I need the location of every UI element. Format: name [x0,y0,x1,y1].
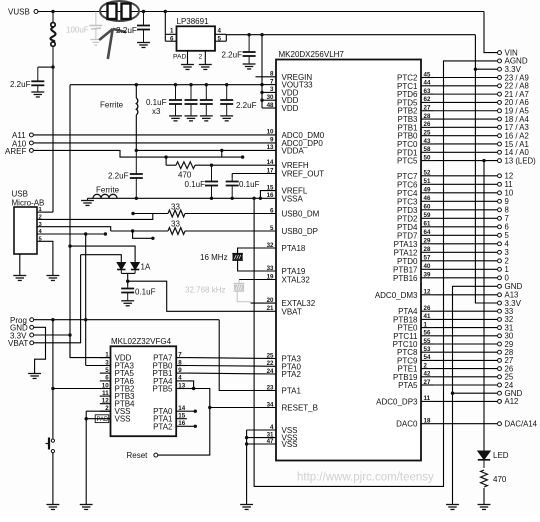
svg-text:100uF: 100uF [66,26,89,35]
svg-text:Reset: Reset [127,451,149,460]
svg-text:3.3V: 3.3V [505,65,522,74]
svg-text:VSS: VSS [282,440,298,449]
resistor 33 (D-) [168,210,185,217]
wire VUSB down to USB connector [52,64,54,212]
svg-text:4: 4 [218,28,222,35]
svg-text:22: 22 [267,360,274,367]
node pad 9 [498,199,502,203]
svg-text:PTC5: PTC5 [397,157,418,166]
wire to pad 9 [434,200,498,202]
wire to pad 3 [434,251,498,253]
ground (LED) [478,505,491,510]
svg-text:USB0_DM: USB0_DM [282,210,320,219]
wire to pad 17 / A3 [434,126,498,128]
node AGND pad [498,59,502,63]
node pad 29 [498,342,502,346]
wire to pad 21 / A7 [434,93,498,95]
node pad 33 [498,309,502,313]
fuse F1 (annotation squiggle) [50,13,55,64]
node pad 8 [498,208,502,212]
svg-text:PAD: PAD [97,417,110,423]
svg-text:13: 13 [267,144,274,151]
node pad 4 [498,242,502,246]
resistor 33 (D+) [168,228,185,235]
svg-text:34: 34 [267,401,274,408]
junction VUSB/fuse [51,10,54,13]
wire to pad 8 [434,209,498,211]
wire to pad 29 [434,343,498,345]
node GND pad (top) [498,284,502,288]
wire to pad 32 [434,318,498,320]
svg-text:10: 10 [267,129,274,136]
wire VREFL bracket to AGND [260,191,276,199]
wire MK20 VSS bracket to ground [246,430,248,505]
svg-text:VSS: VSS [115,415,131,424]
wire to pad 25 [434,376,498,378]
junction GND row 2 [451,392,454,395]
wire 3.3V output rail [226,34,475,36]
svg-text:470: 470 [493,475,507,484]
pin PAD MKL02 VSS [100,418,111,420]
junction Prog/ID riser [84,318,87,321]
wire VBAT pad to diode anode [34,255,81,343]
wire LED resistor to ground [483,488,485,505]
wire AGND rail [254,61,497,487]
wire GND pad to ground [34,327,46,373]
svg-text:USB: USB [12,190,28,199]
wire to pad 6 [434,226,498,228]
svg-text:LP38691: LP38691 [177,17,210,26]
node pad 1 [498,267,502,271]
ground (GND pad) [28,374,41,379]
svg-text:2.2uF: 2.2uF [108,172,129,181]
svg-text:1: 1 [170,28,174,35]
svg-text:16 MHz: 16 MHz [200,253,228,262]
capacitor 0.1uF (VREFH) [210,164,213,167]
wire 3.3V riser to pads and MKL02 [69,85,71,358]
wire button to ground [52,453,54,505]
svg-text:5: 5 [270,225,274,232]
wire to pad 20 / A6 [434,101,498,103]
node 3.3V pad (mid) [498,301,502,305]
svg-text:PAD: PAD [173,54,187,61]
node pad 22 / A8 [498,84,502,88]
node pad 12 [498,174,502,178]
svg-text:Ferrite: Ferrite [96,186,120,195]
svg-text:PTA18: PTA18 [282,244,306,253]
wire AGND row (VSSA) [93,197,276,199]
svg-text:VREF_OUT: VREF_OUT [282,170,325,179]
junction AREF end [241,155,244,158]
ground (GND rail) [446,505,459,510]
capacitor chip symbol right (in ellipse) [122,4,131,20]
wire 3.3V distribution rail [70,84,262,86]
junction Prog/button column [51,318,54,321]
ground (button) [46,505,59,510]
svg-text:MK20DX256VLH7: MK20DX256VLH7 [279,50,345,59]
wire SWD PTA7 to MK20 PTA3 [187,357,276,360]
wire to pad 23 / A9 [434,77,498,79]
bypass capacitor 0.1uF #1 [174,83,177,86]
node pad 7 [498,216,502,220]
svg-text:VSSA: VSSA [282,194,304,203]
wire SWD PTB1 to MK20 PTA2 [187,372,276,375]
wire 3.3V feed to VDD pins [260,33,263,36]
bypass capacitor 0.1uF #3 [205,83,208,86]
node pad 11 [498,182,502,186]
node pad 27 [498,358,502,362]
svg-text:17: 17 [267,167,274,174]
wire to pad 24 [434,384,498,386]
svg-text:0.1uF: 0.1uF [135,288,156,297]
svg-text:USB0_DP: USB0_DP [282,227,318,236]
node pad 17 / A3 [498,125,502,129]
node pad A12 [498,399,502,403]
svg-text:LED: LED [493,451,509,460]
wire pin 13 to LED column [482,159,485,162]
node pad 18 / A4 [498,117,502,121]
node pad 2 [498,259,502,263]
wire 3.3V pad to riser [34,334,70,336]
svg-text:VBAT: VBAT [8,339,28,348]
node 3.3V pad (top) [498,67,502,71]
svg-text:24: 24 [267,368,274,375]
wire to pad 11 [434,183,498,185]
svg-text:PTA5: PTA5 [398,381,418,390]
svg-text:2.2uF: 2.2uF [116,26,137,35]
svg-text:0.1uF: 0.1uF [239,180,260,189]
wire Prog to PTB2 and button [52,320,54,439]
node pad 0 [498,276,502,280]
wire riser to MKL02 VDD [70,335,111,358]
wire USB0_DP row [111,230,168,232]
svg-text:32.768 kHz: 32.768 kHz [185,286,225,295]
svg-text:VBAT: VBAT [282,307,302,316]
node pad 20 / A6 [498,100,502,104]
node pad 5 [498,233,502,237]
svg-text:1A: 1A [141,263,151,272]
svg-text:2.2uF: 2.2uF [236,101,257,110]
wire PTA4/PTB5 reset bracket [187,381,194,389]
wire diode common cathode [121,272,135,274]
svg-text:19: 19 [267,273,274,280]
wire Prog to MK20 PTA1 [219,320,276,391]
wire VUSB horizontal rail [38,11,484,13]
wire diode output to VBAT pin [128,281,276,311]
node pad 24 [498,383,502,387]
svg-text:16: 16 [267,192,274,199]
wire 3.3V to diode (right) [68,244,71,247]
wire to pad 1 [434,268,498,270]
stub MKL02 PTA0 with via [187,410,195,412]
wire to pad 13 (LED) [434,160,498,162]
svg-text:PTA2: PTA2 [153,422,173,431]
svg-text:470: 470 [178,170,192,179]
svg-text:DAC0: DAC0 [396,420,418,429]
wire GND rail [453,286,498,504]
node pad 30 [498,334,502,338]
node pad 16 / A2 [498,134,502,138]
wire to pad 27 [434,359,498,361]
wire PTB2 row to MKL02 [53,388,111,390]
svg-text:3.3V: 3.3V [505,299,522,308]
wire LP38691 output bracket [225,34,227,41]
junction VDD rows [260,83,263,86]
svg-text:PTA1: PTA1 [282,387,302,396]
diode D2 1A (right) [131,262,139,274]
svg-text:2.2uF: 2.2uF [222,51,243,60]
capacitor 2.2uF (after ellipse) [142,10,145,13]
node pad 25 [498,375,502,379]
svg-text:http://www.pjrc.com/teensy: http://www.pjrc.com/teensy [297,472,434,484]
svg-text:ADC0_DM3: ADC0_DM3 [375,291,418,300]
svg-text:33: 33 [267,265,274,272]
svg-text:PTB16: PTB16 [393,274,418,283]
wire to pad 4 [434,243,498,245]
wire XTAL32 row [239,279,276,281]
junction PTB2 row [51,387,54,390]
wire Prog row [34,319,219,321]
wire 3.3V terminal [475,68,497,70]
wire to pad 22 / A8 [434,85,498,87]
node GND pad (bottom) [498,391,502,395]
resistor 470 (LED) [481,470,488,487]
wire to pad A13 [434,294,498,296]
svg-text:2.2uF: 2.2uF [10,80,31,89]
wire to pad DAC/A14 [434,423,498,425]
svg-text:RESET_B: RESET_B [282,404,318,413]
wire 3.3V rail right [475,35,497,303]
junction VUSB branch to 2.2uF [51,65,54,68]
node pad 13 (LED) [498,159,502,163]
wire EXTAL32 row [251,302,276,304]
node pad 19 / A5 [498,109,502,113]
svg-text:DAC/A14: DAC/A14 [505,420,538,429]
wire USB0_DM row [131,212,134,215]
wire to pad 5 [434,234,498,236]
node VIN pad [498,51,502,55]
node pad A13 [498,293,502,297]
node pad 21 / A7 [498,92,502,96]
wire A10 to ADC0_DP0 [34,142,276,144]
junction 3.3V terminal row [474,68,477,71]
annotation ellipse around replacement capacitors [100,1,139,21]
wire MKL02 VSS pins to ground [86,410,110,412]
svg-text:AREF: AREF [5,147,26,156]
wire to pad 15 / A1 [434,143,498,145]
svg-text:13 (LED): 13 (LED) [505,156,537,165]
wire to pad 31 [434,327,498,329]
ground (MKL02 VSS) [80,505,93,510]
bypass capacitor 2.2uF [225,83,228,86]
wire to pad 12 [434,175,498,177]
svg-text:23: 23 [267,384,274,391]
junction VDDA to AREF link [220,149,223,152]
svg-text:33: 33 [171,220,180,229]
svg-text:MKL02Z32VFG4: MKL02Z32VFG4 [111,337,172,346]
svg-text:9: 9 [270,137,274,144]
node pad 23 / A9 [498,76,502,80]
wire VBAT pad to diode (left) [81,255,122,262]
svg-text:21: 21 [267,305,274,312]
wire to pad 14 / A0 [434,151,498,153]
junction reset to RESET_B row [208,406,211,409]
wire to pad 19 / A5 [434,110,498,112]
svg-text:2: 2 [199,54,203,61]
svg-text:A12: A12 [505,397,519,406]
ground (MK20 VSS) [240,505,253,510]
junction AGND at VSSA row [252,197,255,200]
svg-text:PTB5: PTB5 [152,385,173,394]
node pad 15 / A1 [498,142,502,146]
wire to pad 26 [434,368,498,370]
svg-text:x3: x3 [152,107,161,116]
svg-text:0.1uF: 0.1uF [185,180,206,189]
diode D1 1A (left) [117,262,125,274]
wire VUSB to LP38691 input [164,10,167,13]
node pad 6 [498,225,502,229]
ground USB shell [19,254,21,276]
svg-text:32: 32 [267,242,274,249]
wire to pad 7 [434,217,498,219]
svg-text:25: 25 [267,352,274,359]
svg-text:14: 14 [267,159,274,166]
wire to pad 30 [434,335,498,337]
wire to pad 33 [434,310,498,312]
capacitor 0.1uF (VREF_OUT) [231,174,233,179]
svg-text:VDD: VDD [282,104,299,113]
node pad 3 [498,250,502,254]
svg-text:GND: GND [505,389,523,398]
node pad 32 [498,317,502,321]
wire to pad 28 [434,351,498,353]
wire to pad 16 / A2 [434,135,498,137]
svg-text:Ferrite: Ferrite [100,101,124,110]
annotation arrow pointing at ellipse [99,29,126,59]
wire to pad 0 [434,277,498,279]
bypass capacitor 0.1uF #2 [189,83,192,86]
resistor 470 (VREFH) [176,162,195,169]
node pad 28 [498,350,502,354]
wire crystal to PTA19 row [238,260,276,271]
svg-text:XTAL32: XTAL32 [282,276,311,285]
node pad DAC/A14 [498,422,502,426]
wire VREF_OUT row [232,173,276,175]
svg-text:VDDA: VDDA [282,146,305,155]
svg-text:6: 6 [270,207,274,214]
svg-text:GND: GND [505,282,523,291]
svg-text:ADC0_DP3: ADC0_DP3 [376,397,418,406]
wire SWD PTB0 to MK20 PTA0 [187,365,276,368]
wire to pad 10 [434,192,498,194]
node pad 31 [498,326,502,330]
wire to pad 2 [434,260,498,262]
node pad 10 [498,191,502,195]
capacitor chip symbol left (in ellipse) [108,4,117,20]
svg-text:20: 20 [267,297,274,304]
wire VREFH branch [164,155,167,158]
wire VDDA row [135,149,138,152]
capacitor 0.1uF (VBAT) [121,286,134,301]
wire to pad 18 / A4 [434,118,498,120]
wire USB ID / Prog riser [85,234,87,366]
wire PTA3 row from riser [86,365,111,367]
junction DP stub [131,229,134,232]
svg-text:33: 33 [171,203,180,212]
pushbutton SW1 (program) [46,438,55,453]
wire VUSB to VIN terminal [484,12,497,53]
svg-text:15: 15 [267,184,274,191]
stub MKL02 PTA2 with via [187,425,195,427]
svg-text:PTA2: PTA2 [282,370,302,379]
svg-text:VUSB: VUSB [8,8,30,17]
LED D3 [478,451,490,468]
wire PTA18 row to crystal [238,248,276,254]
wire RESET_B row [210,407,276,409]
svg-text:0.1uF: 0.1uF [146,98,167,107]
wire GND row 2 [453,392,498,394]
wire A11 to ADC0_DM0 [34,134,276,136]
wire VREFH to pin 14 [195,164,276,166]
wire AREF with jog [34,150,243,157]
node pad 26 [498,367,502,371]
wire to pad A12 [434,400,498,402]
junction AGND/ferrite column [135,197,138,200]
node pad 14 / A0 [498,150,502,154]
